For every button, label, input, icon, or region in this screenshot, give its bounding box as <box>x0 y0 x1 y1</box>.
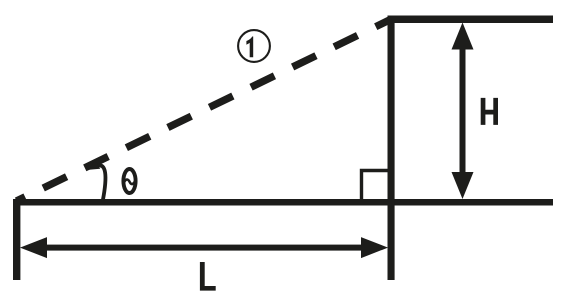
baseline (ground line) <box>13 199 553 206</box>
digit 1 <box>246 37 253 58</box>
H arrowhead top <box>452 23 474 50</box>
right-angle marker <box>362 171 389 200</box>
dashed incline line (1) <box>17 19 392 201</box>
H dimension arrow shaft <box>460 45 466 175</box>
L arrowhead right <box>361 237 388 258</box>
angle arc <box>98 165 106 200</box>
callout circle 1 <box>238 30 270 62</box>
H arrowhead bottom <box>452 172 474 199</box>
L dimension arrow shaft <box>44 245 368 251</box>
left end tick <box>13 199 20 280</box>
vertical wall line <box>388 16 395 281</box>
label L <box>200 262 216 291</box>
angle arc arrowhead <box>89 160 100 170</box>
label H <box>481 98 498 125</box>
top edge line <box>388 16 554 24</box>
theta label <box>123 169 135 193</box>
L arrowhead left <box>20 237 47 258</box>
